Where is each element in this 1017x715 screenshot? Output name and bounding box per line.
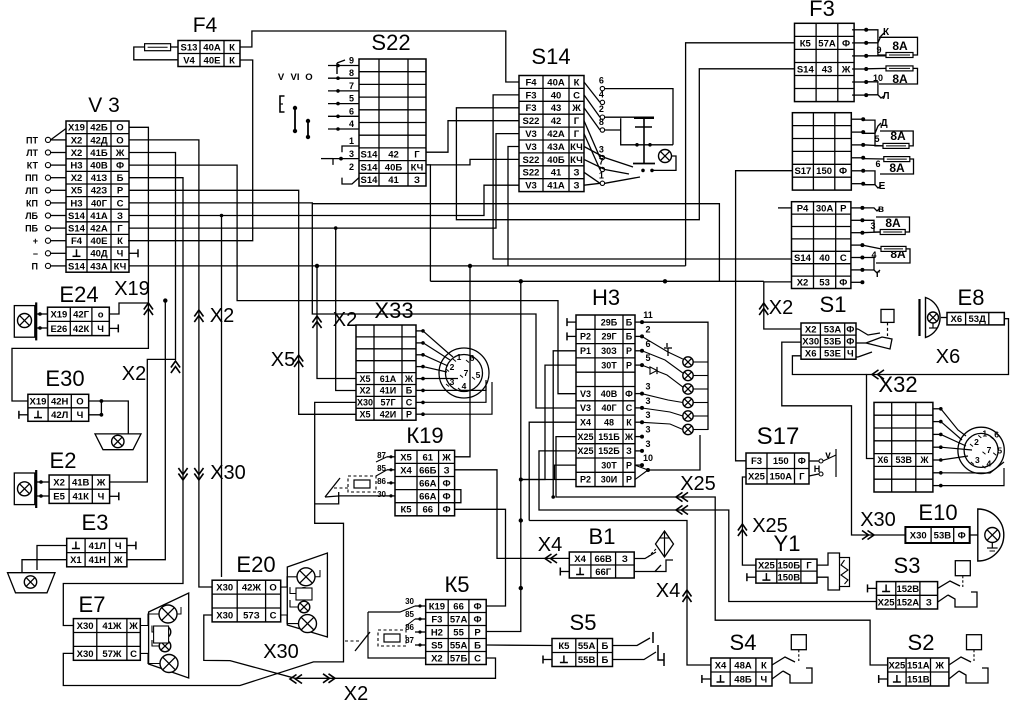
svg-text:30: 30 <box>377 490 386 499</box>
svg-text:Ф: Ф <box>116 161 124 172</box>
svg-text:Ч: Ч <box>77 410 84 421</box>
svg-text:ПП: ПП <box>25 173 38 183</box>
svg-text:4: 4 <box>462 381 467 391</box>
svg-text:S14: S14 <box>68 261 86 272</box>
svg-text:X2: X2 <box>122 363 146 385</box>
svg-text:42З: 42З <box>91 186 108 197</box>
svg-text:150В: 150В <box>777 573 800 584</box>
svg-text:X4: X4 <box>400 465 412 476</box>
svg-text:5: 5 <box>997 446 1002 456</box>
svg-text:66: 66 <box>423 505 434 516</box>
svg-text:Г: Г <box>574 129 580 140</box>
svg-text:Ч: Ч <box>98 492 105 503</box>
svg-text:ЛБ: ЛБ <box>25 211 38 221</box>
svg-text:Г: Г <box>414 150 420 161</box>
svg-text:S22: S22 <box>523 116 540 127</box>
svg-text:48: 48 <box>604 418 614 428</box>
svg-text:2: 2 <box>349 162 354 172</box>
svg-text:40Е: 40Е <box>91 236 108 247</box>
svg-text:З: З <box>444 465 450 476</box>
svg-text:40Б: 40Б <box>547 155 565 166</box>
svg-text:41З: 41З <box>91 173 108 184</box>
svg-text:С: С <box>840 253 847 264</box>
svg-text:Ф: Ф <box>846 324 854 335</box>
svg-text:Б: Б <box>474 640 481 651</box>
svg-text:61А: 61А <box>380 374 397 384</box>
svg-text:Б: Б <box>626 332 633 342</box>
svg-text:К: К <box>574 77 580 88</box>
svg-text:57Ж: 57Ж <box>102 649 122 660</box>
svg-text:F3: F3 <box>525 103 536 114</box>
svg-text:11: 11 <box>643 310 653 320</box>
svg-text:Н2: Н2 <box>431 627 443 638</box>
svg-text:85: 85 <box>405 610 414 619</box>
svg-text:X33: X33 <box>374 298 413 323</box>
svg-text:Е7: Е7 <box>79 592 106 617</box>
svg-text:Р: Р <box>626 346 632 356</box>
svg-text:Р: Р <box>117 186 124 197</box>
svg-text:6: 6 <box>599 76 604 86</box>
svg-text:Ж: Ж <box>404 374 414 384</box>
svg-text:О: О <box>116 123 123 134</box>
svg-text:40В: 40В <box>90 161 108 172</box>
svg-text:61: 61 <box>423 452 434 463</box>
svg-text:Б: Б <box>117 173 124 184</box>
svg-text:Г: Г <box>574 116 580 127</box>
svg-text:S14: S14 <box>68 224 86 235</box>
svg-text:Ф: Ф <box>842 38 850 49</box>
svg-text:41А: 41А <box>90 211 108 222</box>
svg-text:Д: Д <box>880 118 887 129</box>
svg-text:Ж: Ж <box>441 452 451 463</box>
svg-text:41К: 41К <box>73 492 90 503</box>
svg-text:З: З <box>574 181 580 192</box>
svg-text:Б: Б <box>601 655 608 666</box>
svg-text:V3: V3 <box>525 142 537 153</box>
svg-text:86: 86 <box>377 477 386 486</box>
svg-text:F4: F4 <box>71 236 83 247</box>
svg-text:Ф: Ф <box>473 601 481 612</box>
svg-text:7: 7 <box>349 81 354 91</box>
svg-text:Ж: Ж <box>841 64 851 75</box>
svg-text:Р: Р <box>474 627 481 638</box>
svg-text:Ч: Ч <box>115 541 122 552</box>
svg-text:X2: X2 <box>333 309 357 331</box>
svg-text:53: 53 <box>819 278 830 289</box>
svg-text:Ф: Ф <box>839 166 847 177</box>
svg-text:55А: 55А <box>578 641 596 652</box>
svg-text:X25: X25 <box>752 515 788 537</box>
svg-text:4: 4 <box>349 119 354 129</box>
svg-text:К: К <box>761 660 767 671</box>
svg-text:Ф: Ф <box>958 530 966 541</box>
svg-text:Б: Б <box>601 641 608 652</box>
svg-text:X25: X25 <box>577 432 593 442</box>
svg-text:+: + <box>33 236 38 246</box>
svg-text:X2: X2 <box>53 478 65 489</box>
svg-text:55: 55 <box>453 627 464 638</box>
svg-text:Р2: Р2 <box>580 475 591 485</box>
svg-text:150: 150 <box>816 166 832 177</box>
svg-text:Ж: Ж <box>113 555 123 566</box>
svg-text:S22: S22 <box>371 30 410 55</box>
svg-text:43А: 43А <box>547 142 565 153</box>
svg-text:6: 6 <box>349 106 354 116</box>
svg-text:Е20: Е20 <box>236 552 275 577</box>
svg-text:150Б: 150Б <box>777 561 800 572</box>
svg-text:41: 41 <box>388 175 399 186</box>
svg-text:43: 43 <box>822 64 833 75</box>
svg-text:5: 5 <box>645 353 650 363</box>
svg-text:41А: 41А <box>547 181 565 192</box>
svg-text:X4: X4 <box>656 580 680 602</box>
svg-text:К: К <box>229 42 235 53</box>
svg-text:X25: X25 <box>758 561 776 572</box>
svg-text:41Б: 41Б <box>90 148 108 159</box>
svg-text:X2: X2 <box>431 653 443 664</box>
svg-text:8: 8 <box>349 68 354 78</box>
svg-text:КЧ: КЧ <box>570 155 583 166</box>
svg-text:X30: X30 <box>357 398 373 408</box>
svg-text:X5: X5 <box>71 186 83 197</box>
svg-text:41В: 41В <box>72 478 90 489</box>
svg-text:К5: К5 <box>558 641 570 652</box>
svg-text:53Е: 53Е <box>824 349 841 360</box>
svg-text:С: С <box>626 403 633 413</box>
svg-text:42А: 42А <box>90 224 108 235</box>
svg-text:Г: Г <box>799 472 805 483</box>
svg-text:X30: X30 <box>216 583 233 594</box>
svg-text:4: 4 <box>599 89 604 99</box>
svg-text:V 3: V 3 <box>88 94 120 117</box>
svg-text:Ф: Ф <box>443 492 451 503</box>
svg-text:Г: Г <box>806 561 812 572</box>
svg-text:X2: X2 <box>359 386 370 396</box>
svg-text:X2: X2 <box>71 173 83 184</box>
svg-text:40: 40 <box>819 253 830 264</box>
svg-text:2: 2 <box>645 324 650 334</box>
svg-text:42Д: 42Д <box>90 135 108 146</box>
svg-text:53А: 53А <box>824 324 842 335</box>
svg-text:Е5: Е5 <box>53 492 65 503</box>
svg-text:48Б: 48Б <box>734 674 752 685</box>
svg-text:3: 3 <box>645 396 650 406</box>
svg-text:41И: 41И <box>380 386 396 396</box>
svg-text:С: С <box>117 198 124 209</box>
svg-text:X5: X5 <box>359 374 370 384</box>
svg-text:X2: X2 <box>71 135 83 146</box>
svg-text:Р2: Р2 <box>580 332 591 342</box>
svg-text:З: З <box>414 175 420 186</box>
svg-text:48А: 48А <box>734 660 752 671</box>
svg-text:Ч: Ч <box>761 674 768 685</box>
svg-text:Е10: Е10 <box>918 500 957 525</box>
svg-text:42К: 42К <box>73 324 90 335</box>
svg-text:F3: F3 <box>809 0 835 21</box>
svg-text:Р: Р <box>406 410 412 420</box>
svg-text:К: К <box>117 236 123 247</box>
svg-text:К5: К5 <box>444 572 469 597</box>
svg-text:Б: Б <box>406 386 413 396</box>
svg-text:S14: S14 <box>68 211 86 222</box>
svg-text:Ф: Ф <box>443 505 451 516</box>
svg-text:X19: X19 <box>114 278 150 300</box>
svg-text:152А: 152А <box>896 598 919 609</box>
svg-text:С: С <box>130 649 137 660</box>
svg-text:3: 3 <box>645 425 650 435</box>
svg-text:41Н: 41Н <box>89 555 107 566</box>
svg-text:КП: КП <box>26 198 38 208</box>
svg-text:42Г: 42Г <box>73 310 90 321</box>
svg-text:КЧ: КЧ <box>411 162 424 173</box>
svg-text:6: 6 <box>875 159 880 169</box>
svg-text:Ж: Ж <box>128 621 138 632</box>
svg-text:X19: X19 <box>30 397 47 408</box>
svg-text:151Б: 151Б <box>598 432 620 442</box>
svg-text:X6: X6 <box>936 346 960 368</box>
svg-text:Е3: Е3 <box>82 510 109 535</box>
svg-text:КЧ: КЧ <box>570 142 583 153</box>
svg-text:3: 3 <box>645 382 650 392</box>
svg-text:66В: 66В <box>594 554 612 565</box>
svg-text:40: 40 <box>551 90 562 101</box>
svg-text:О: О <box>269 583 276 594</box>
svg-text:X6: X6 <box>805 349 817 360</box>
svg-text:43: 43 <box>551 103 562 114</box>
svg-text:К19: К19 <box>406 423 443 448</box>
svg-text:S5: S5 <box>570 610 597 635</box>
svg-text:К: К <box>626 418 632 428</box>
svg-text:К: К <box>883 27 890 38</box>
svg-text:30: 30 <box>405 597 414 606</box>
svg-text:З: З <box>926 598 932 609</box>
svg-text:F4: F4 <box>193 14 218 37</box>
svg-text:42: 42 <box>388 150 399 161</box>
svg-text:ПТ: ПТ <box>26 135 38 145</box>
svg-text:ЛП: ЛП <box>25 186 38 196</box>
svg-text:X5: X5 <box>359 410 370 420</box>
svg-text:V4: V4 <box>183 55 195 66</box>
svg-text:53Б: 53Б <box>824 337 842 348</box>
svg-text:66А: 66А <box>419 492 437 503</box>
svg-text:X2: X2 <box>344 683 368 705</box>
svg-text:КТ: КТ <box>27 161 39 171</box>
svg-text:З: З <box>574 168 580 179</box>
svg-text:8А: 8А <box>892 39 908 53</box>
svg-text:Р: Р <box>626 460 632 470</box>
svg-text:8А: 8А <box>889 161 905 175</box>
svg-text:К: К <box>229 55 235 66</box>
svg-text:57А: 57А <box>818 38 836 49</box>
svg-text:К19: К19 <box>429 601 445 612</box>
svg-text:5: 5 <box>349 94 354 104</box>
svg-text:8А: 8А <box>885 216 901 230</box>
svg-text:F3: F3 <box>431 614 442 625</box>
svg-text:30З: 30З <box>601 346 617 356</box>
svg-text:F4: F4 <box>525 77 537 88</box>
svg-text:Ж: Ж <box>624 432 634 442</box>
svg-text:S14: S14 <box>797 64 815 75</box>
svg-text:Ф: Ф <box>798 456 806 467</box>
svg-text:ПБ: ПБ <box>25 224 38 234</box>
svg-text:X2: X2 <box>805 324 817 335</box>
svg-text:−: − <box>33 249 38 259</box>
svg-text:X30: X30 <box>77 621 94 632</box>
svg-text:Е30: Е30 <box>45 366 84 391</box>
svg-text:2: 2 <box>974 437 979 447</box>
svg-text:57А: 57А <box>450 614 468 625</box>
svg-text:43А: 43А <box>90 261 108 272</box>
svg-text:F3: F3 <box>525 90 536 101</box>
svg-text:152В: 152В <box>896 584 919 595</box>
svg-text:5: 5 <box>476 370 481 380</box>
svg-text:X1: X1 <box>70 555 82 566</box>
svg-text:S13: S13 <box>181 42 198 53</box>
svg-text:53В: 53В <box>896 455 913 465</box>
svg-text:55В: 55В <box>578 655 596 666</box>
svg-text:Р4: Р4 <box>797 203 809 214</box>
svg-text:Н3: Н3 <box>70 198 82 209</box>
svg-text:X25: X25 <box>888 660 906 671</box>
svg-text:Ж: Ж <box>96 478 106 489</box>
svg-text:Б: Б <box>626 317 633 327</box>
svg-text:41Л: 41Л <box>89 541 107 552</box>
svg-text:О: О <box>305 72 312 83</box>
svg-text:Н: Н <box>814 464 821 474</box>
svg-text:X25: X25 <box>577 446 593 456</box>
svg-text:1: 1 <box>457 352 462 362</box>
svg-text:1: 1 <box>349 136 354 146</box>
svg-text:X30: X30 <box>210 462 246 484</box>
svg-text:X25: X25 <box>680 473 716 495</box>
svg-text:151А: 151А <box>907 660 930 671</box>
svg-text:X30: X30 <box>910 530 927 541</box>
svg-text:С: С <box>573 90 580 101</box>
svg-text:41Ж: 41Ж <box>102 621 122 632</box>
svg-text:V3: V3 <box>580 389 591 399</box>
svg-text:К5: К5 <box>800 38 812 49</box>
svg-text:66Г: 66Г <box>595 567 612 578</box>
svg-text:S4: S4 <box>730 630 757 655</box>
svg-text:X6: X6 <box>877 455 888 465</box>
svg-text:30И: 30И <box>601 475 617 485</box>
svg-text:42Ж: 42Ж <box>242 583 262 594</box>
svg-text:42Л: 42Л <box>51 410 69 421</box>
svg-text:87: 87 <box>405 636 414 645</box>
svg-text:X30: X30 <box>216 610 233 621</box>
svg-text:S22: S22 <box>523 155 540 166</box>
svg-text:П: П <box>32 261 38 271</box>
svg-text:X4: X4 <box>715 660 727 671</box>
svg-text:57Г: 57Г <box>380 398 395 408</box>
svg-text:Р: Р <box>840 203 847 214</box>
svg-text:Н3: Н3 <box>592 285 620 310</box>
svg-text:53Д: 53Д <box>969 314 987 325</box>
svg-text:S5: S5 <box>431 640 443 651</box>
svg-text:2: 2 <box>599 104 604 114</box>
svg-text:7: 7 <box>464 368 469 378</box>
svg-text:X2: X2 <box>797 278 809 289</box>
svg-text:Ж: Ж <box>919 455 929 465</box>
svg-text:151В: 151В <box>907 674 930 685</box>
svg-text:С: С <box>474 653 481 664</box>
svg-text:29Б: 29Б <box>601 317 618 327</box>
svg-text:9: 9 <box>876 45 881 55</box>
svg-text:В1: В1 <box>589 524 616 549</box>
svg-text:40А: 40А <box>547 77 565 88</box>
svg-text:S22: S22 <box>523 168 540 179</box>
svg-text:E8: E8 <box>958 285 985 310</box>
svg-text:57З: 57З <box>243 610 260 621</box>
svg-text:42Б: 42Б <box>90 123 108 134</box>
svg-text:40Д: 40Д <box>90 249 108 260</box>
svg-text:86: 86 <box>405 623 414 632</box>
svg-text:9: 9 <box>349 56 354 66</box>
svg-text:8: 8 <box>599 117 604 127</box>
svg-text:Н3: Н3 <box>70 161 82 172</box>
svg-text:66: 66 <box>453 601 464 612</box>
svg-text:4: 4 <box>987 459 992 469</box>
svg-text:S2: S2 <box>908 630 935 655</box>
svg-text:2: 2 <box>450 362 455 372</box>
svg-text:X2: X2 <box>769 297 793 319</box>
svg-text:КЧ: КЧ <box>114 261 127 272</box>
svg-text:3: 3 <box>645 439 650 449</box>
svg-text:Р: Р <box>626 360 632 370</box>
svg-text:3: 3 <box>645 410 650 420</box>
svg-text:X30: X30 <box>802 337 819 348</box>
svg-text:о: о <box>98 310 104 321</box>
svg-text:Е24: Е24 <box>59 282 98 307</box>
svg-text:Ф: Ф <box>839 278 847 289</box>
svg-text:З: З <box>622 554 628 565</box>
svg-text:X19: X19 <box>68 123 85 134</box>
svg-text:S14: S14 <box>361 150 379 161</box>
svg-text:Ф: Ф <box>443 479 451 490</box>
svg-text:1: 1 <box>982 428 987 438</box>
svg-text:С: С <box>406 398 413 408</box>
svg-text:S3: S3 <box>894 553 921 578</box>
svg-text:X4: X4 <box>574 554 586 565</box>
svg-text:X6: X6 <box>950 314 962 325</box>
svg-text:Е26: Е26 <box>50 324 67 335</box>
svg-text:О: О <box>116 135 123 146</box>
svg-text:53В: 53В <box>934 530 952 541</box>
svg-text:Е2: Е2 <box>50 448 77 473</box>
svg-text:V: V <box>278 72 285 83</box>
svg-text:3: 3 <box>975 455 980 465</box>
svg-text:66Б: 66Б <box>419 465 437 476</box>
svg-text:40Е: 40Е <box>204 55 221 66</box>
svg-text:X4: X4 <box>538 534 562 556</box>
svg-text:42Н: 42Н <box>51 397 69 408</box>
svg-text:X5: X5 <box>271 349 295 371</box>
svg-text:40Г: 40Г <box>601 403 616 413</box>
svg-text:X32: X32 <box>878 372 917 397</box>
svg-text:X25: X25 <box>748 472 766 483</box>
svg-text:40В: 40В <box>601 389 618 399</box>
svg-text:41: 41 <box>551 168 562 179</box>
svg-text:З: З <box>117 211 123 222</box>
svg-text:40Г: 40Г <box>91 198 108 209</box>
svg-text:X2: X2 <box>71 148 83 159</box>
svg-text:S17: S17 <box>757 423 800 450</box>
svg-text:V3: V3 <box>525 129 537 140</box>
svg-text:150А: 150А <box>769 472 792 483</box>
svg-text:3: 3 <box>599 145 604 155</box>
svg-text:X25: X25 <box>878 598 896 609</box>
svg-text:30А: 30А <box>816 203 834 214</box>
